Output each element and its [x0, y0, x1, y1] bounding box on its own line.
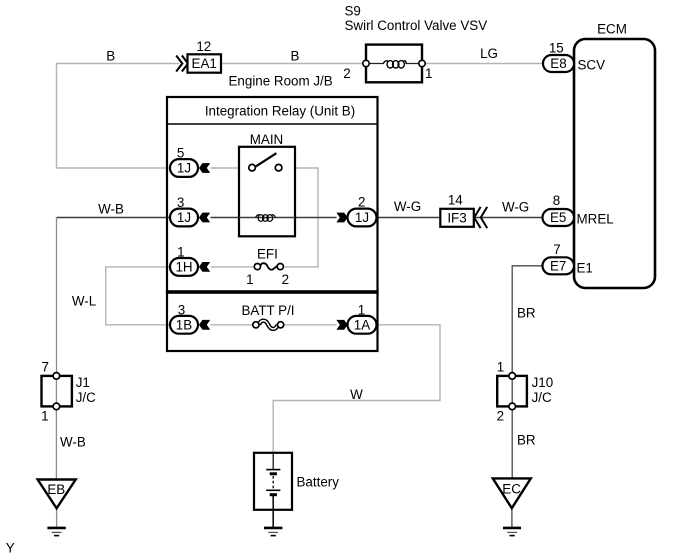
svg-text:7: 7: [41, 360, 48, 375]
arrowhead at 1J pin3: [199, 213, 210, 223]
wire BR from J10 down to EC triangle: [511, 410, 513, 479]
svg-text:3: 3: [178, 303, 185, 318]
battery dashed center: [272, 476, 274, 489]
wire stub to relay pin 5 1J: [57, 167, 171, 169]
relay oval 1B pin 3: [170, 316, 198, 334]
wire inside relay: 1J5 arrow to switch contact: [211, 167, 250, 169]
svg-text:ECM: ECM: [597, 22, 627, 37]
svg-text:Battery: Battery: [297, 475, 340, 490]
svg-text:1J: 1J: [177, 161, 191, 176]
J10 internal wire: [511, 378, 513, 404]
svg-text:W-G: W-G: [394, 199, 421, 214]
J1 terminal 7 circle: [53, 373, 60, 380]
svg-text:2: 2: [343, 66, 350, 81]
wire inside relay: fusible link to 1A arrow: [284, 324, 337, 326]
battery plate short top: [270, 472, 277, 475]
arrowhead at 1B: [199, 320, 210, 330]
relay oval 1J pin 3: [170, 209, 198, 227]
connector IF3 box: [440, 209, 474, 227]
svg-text:3: 3: [177, 195, 184, 210]
svg-text:Y: Y: [6, 541, 15, 555]
connector J10 box: [497, 376, 527, 407]
connector EA1 box: [188, 54, 222, 72]
svg-text:2: 2: [497, 408, 504, 423]
S9 internal wire: [368, 63, 420, 65]
svg-text:1: 1: [425, 66, 432, 81]
wire W-B J1 to EB ground triangle: [55, 410, 57, 480]
wire B from EA1 to S9: [221, 63, 366, 65]
svg-text:E5: E5: [550, 210, 566, 225]
svg-text:1: 1: [246, 272, 253, 287]
svg-text:EA1: EA1: [192, 56, 217, 71]
battery ground symbol: [264, 528, 282, 536]
wire W-B vertical down to J1: [56, 218, 58, 373]
EFI fuse symbol: [260, 263, 277, 270]
svg-text:W: W: [350, 387, 363, 402]
relay title separator line: [167, 123, 378, 125]
battery bottom wire to ground: [272, 495, 274, 527]
svg-text:14: 14: [448, 192, 463, 207]
wire dark W-G 1J2 to IF3: [377, 217, 441, 219]
battery plate short bottom: [270, 493, 277, 496]
relay oval 1J pin 2 right: [348, 209, 377, 227]
svg-text:7: 7: [553, 242, 560, 257]
svg-text:B: B: [106, 49, 115, 64]
svg-text:W-G: W-G: [502, 199, 529, 214]
connector E8 oval: [543, 55, 574, 72]
svg-text:SCV: SCV: [578, 58, 606, 73]
BATT P/I fusible link symbol: [259, 321, 278, 329]
wire W-B dark from left to relay 1J pin3: [57, 217, 171, 219]
svg-text:1J: 1J: [177, 210, 191, 225]
svg-text:W-B: W-B: [98, 202, 124, 217]
wire B top-left vertical and horizontal to EA1: [57, 64, 180, 169]
svg-text:1H: 1H: [175, 260, 192, 275]
relay oval 1A pin 1 right: [348, 316, 377, 334]
svg-text:E8: E8: [550, 56, 566, 71]
connector E7 oval: [543, 257, 575, 274]
svg-text:E7: E7: [550, 259, 566, 274]
MAIN switch contact left: [249, 164, 256, 171]
wire LG from S9 to E8: [422, 63, 543, 65]
relay section separator thick band: [166, 290, 379, 294]
wire from EB apex to ground: [56, 508, 58, 527]
J1 internal wire: [55, 378, 57, 404]
wire inside relay: switch right contact to corner and down to EFI: [282, 168, 318, 267]
component S9 box: [366, 45, 422, 83]
arrowhead at 1J pin5: [199, 163, 210, 173]
svg-text:1: 1: [358, 303, 365, 318]
svg-text:1: 1: [177, 244, 184, 259]
svg-text:Engine Room J/B: Engine Room J/B: [229, 74, 333, 89]
svg-text:2: 2: [358, 195, 365, 210]
wire BR from E7 left and down to J10: [512, 266, 542, 373]
S9 terminal 1: [419, 60, 425, 66]
svg-text:15: 15: [549, 40, 564, 55]
Integration Relay outer box: [167, 97, 378, 351]
arrowhead at 1H: [199, 262, 210, 272]
svg-text:Swirl Control Valve VSV: Swirl Control Valve VSV: [345, 18, 488, 33]
svg-text:5: 5: [177, 146, 184, 161]
J1 terminal 1 circle: [53, 403, 60, 410]
MAIN coil: [256, 215, 276, 222]
svg-text:J/C: J/C: [532, 390, 552, 405]
wire dark W-G IF3 chevrons to E5: [474, 217, 543, 219]
battery plate long top: [266, 469, 280, 471]
MAIN relay box: [239, 147, 295, 237]
wire inside relay: 1B arrow to fusible link: [211, 324, 253, 326]
svg-text:Integration Relay (Unit B): Integration Relay (Unit B): [205, 104, 355, 119]
svg-text:1A: 1A: [354, 317, 370, 332]
svg-text:W-L: W-L: [72, 294, 96, 309]
MAIN switch arm: [255, 153, 276, 167]
ground triangle EB: [38, 480, 76, 509]
EB ground symbol: [47, 528, 65, 536]
svg-text:BR: BR: [517, 433, 536, 448]
svg-text:LG: LG: [480, 46, 498, 61]
battery plate long bottom: [266, 489, 280, 491]
S9 terminal 2: [363, 60, 369, 66]
relay oval 1H pin 1: [170, 258, 198, 276]
svg-text:12: 12: [196, 39, 211, 54]
svg-text:J1: J1: [76, 375, 90, 390]
arrowhead at 1A: [336, 320, 347, 330]
J10 terminal 1 circle: [509, 373, 516, 380]
battery box: [254, 453, 292, 510]
svg-text:EFI: EFI: [257, 246, 278, 261]
svg-text:J10: J10: [532, 375, 554, 390]
svg-text:B: B: [291, 49, 300, 64]
connector E5 oval: [543, 209, 575, 226]
arrowhead at 1J pin2: [336, 213, 347, 223]
svg-text:J/C: J/C: [76, 390, 96, 405]
svg-text:BR: BR: [517, 306, 536, 321]
svg-text:IF3: IF3: [447, 211, 466, 226]
svg-text:1B: 1B: [176, 317, 192, 332]
wire dark main row through relay coil 1J3 to 1J2: [211, 217, 337, 219]
wire W from 1A right down and left to battery: [273, 325, 440, 453]
svg-text:1: 1: [497, 360, 504, 375]
svg-text:BATT P/I: BATT P/I: [241, 303, 294, 318]
svg-text:E1: E1: [577, 260, 593, 275]
relay oval 1J pin 5: [170, 159, 198, 177]
connector IF3 chevrons: [474, 207, 487, 228]
J10 terminal 2 circle: [509, 403, 516, 410]
svg-text:MREL: MREL: [577, 212, 614, 227]
ECM box: [574, 39, 655, 288]
svg-text:1: 1: [41, 409, 48, 424]
svg-text:2: 2: [282, 272, 289, 287]
wire inside relay: 1H arrow to EFI fuse pin1: [211, 266, 255, 268]
ground triangle EC: [493, 478, 531, 508]
svg-text:W-B: W-B: [60, 435, 86, 450]
battery internal top wire: [272, 453, 274, 470]
svg-text:S9: S9: [345, 4, 361, 19]
wire W-L from 1H left down and right to 1B: [106, 267, 170, 325]
svg-text:EC: EC: [502, 482, 521, 497]
S9 coil: [383, 61, 406, 68]
connector EA1 chevrons: [176, 56, 188, 72]
svg-text:1J: 1J: [355, 210, 369, 225]
connector J1 box: [42, 376, 72, 407]
EC ground symbol: [503, 528, 521, 536]
MAIN switch contact right: [275, 164, 282, 171]
svg-text:EB: EB: [47, 482, 65, 497]
svg-text:8: 8: [553, 193, 560, 208]
wire from EC apex to ground: [511, 508, 513, 527]
MAIN row wire inside: [239, 217, 295, 219]
svg-text:MAIN: MAIN: [250, 132, 283, 147]
